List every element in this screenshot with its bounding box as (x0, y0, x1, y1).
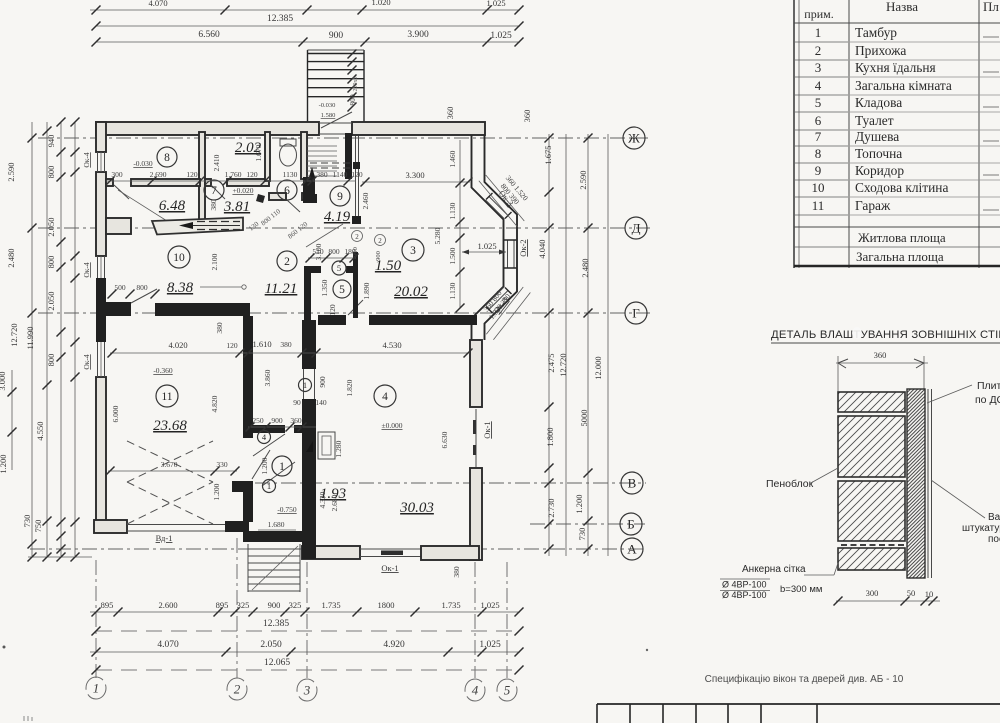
bottom dim row 3 (90, 640, 524, 657)
garage cross (127, 441, 213, 524)
room bubble 9 (330, 186, 350, 206)
entrance stairs top (308, 50, 365, 129)
interior wall wc south (269, 193, 286, 200)
wall pier left a (106, 218, 131, 234)
bottom dim row 12.065 (92, 658, 524, 675)
interior vertical dims (111, 94, 457, 511)
outer render lines (927, 389, 929, 578)
window Ок-1 right (475, 409, 477, 467)
room schedule table (794, 0, 1000, 268)
room bubble 7 (204, 180, 224, 200)
axis bubble А (621, 538, 643, 560)
facing hatched strip (907, 389, 925, 578)
leader render right (931, 480, 1000, 545)
room bubble 1 (299, 379, 312, 392)
dimension row top partial (90, 0, 524, 15)
leader Плити (927, 380, 1000, 406)
window Ок-4 at y256 (97, 256, 99, 278)
outer wall right lower hollow (470, 468, 482, 560)
axis bubble Г (625, 302, 647, 324)
axis bubble 4 (465, 679, 485, 701)
foam block 2 (838, 416, 905, 477)
tambour south wall (243, 531, 305, 542)
rotated callouts near corridor (247, 207, 309, 241)
rebar labels (720, 579, 822, 600)
door mark (2)900 b (375, 235, 386, 246)
left margin dim lines (8, 118, 80, 557)
door diag room8 (114, 185, 129, 199)
outer wall top right segment (352, 122, 485, 135)
dimension row 12.385 top (92, 14, 524, 31)
detail bottom dims 300 50 10 (834, 588, 941, 606)
leader Анкерна сітка (742, 563, 838, 575)
bay window Ок-3 upper (486, 197, 509, 220)
interior wall shower south (205, 179, 211, 186)
door diag garage/tambour (252, 450, 270, 479)
axis line D (38, 227, 650, 229)
dim row 4000/120 & 1610/380/4530 (108, 339, 473, 358)
left margin dim texts (0, 135, 56, 533)
room bubble 5 (332, 261, 346, 275)
room bubble 1 (263, 480, 276, 493)
room bubble 4 (258, 431, 271, 444)
leader from 4.19 (306, 224, 343, 247)
garage east wall (243, 316, 253, 438)
room bubble 8 (157, 147, 177, 167)
interior wall stair east (345, 133, 352, 179)
interior wall corridor south / garage north (155, 303, 250, 316)
axis line A (30, 548, 646, 550)
outer wall left segments with windows Ок-4 (96, 122, 106, 152)
left margin tick row y557 (28, 553, 93, 562)
interior wall room8 south (106, 179, 113, 186)
door diag corridor (131, 289, 157, 303)
room3 south wall (318, 315, 346, 325)
door diag tambour (253, 434, 295, 486)
stair flight arrow band (152, 218, 243, 235)
axis bubble Б (620, 513, 642, 535)
wc door jamb wedge (256, 194, 265, 203)
leader Пеноблок (766, 468, 838, 490)
door diag room3 (348, 300, 363, 315)
axis bubble Ж (623, 127, 645, 149)
tambour north wall (253, 425, 285, 433)
room bubble 1 (272, 456, 292, 476)
axis bubble 1 (86, 677, 106, 699)
door diag wc (287, 200, 300, 212)
dim row 250 900 360 (246, 416, 317, 432)
garage bottom wall (225, 521, 249, 532)
axis verticals 1-5 (95, 560, 97, 678)
wall pier left b (106, 302, 131, 316)
anchor mesh joint (841, 544, 905, 546)
interior dim row y176 (106, 170, 363, 186)
bottom wall left of window (302, 546, 360, 559)
axis bubble 3 (297, 679, 317, 701)
room bubble 3 (402, 239, 424, 261)
stray dot (3, 646, 6, 649)
door diag room10 long (118, 190, 186, 233)
interior wall shower/wc divider (265, 132, 270, 181)
axis bubble 5 (497, 679, 517, 701)
dimension row 6.560 900 3.900 1.025 (92, 30, 524, 47)
interior wall room8 east (199, 132, 205, 221)
bay dim stack lower (471, 275, 531, 340)
foam block 4 (838, 548, 905, 570)
pantry walls (304, 266, 321, 273)
top door jambs (319, 122, 352, 124)
right margin dim texts (537, 145, 603, 540)
axis line B (530, 523, 645, 525)
bottom dim row 12.385 (92, 619, 524, 636)
axis line V (255, 482, 646, 484)
room bubble 5 (333, 280, 351, 298)
outer wall right upper hollow (472, 135, 518, 340)
tiny marks bottom left (24, 716, 32, 721)
boiler flue (318, 432, 335, 459)
stairwell upper treads (307, 146, 355, 177)
axis bubble 2 (227, 678, 247, 700)
interior wall stair west (301, 132, 307, 179)
thin wall room9/room3 (355, 136, 357, 223)
bay dim stack upper (479, 162, 540, 227)
tambour east wall (302, 320, 316, 369)
room bubble 2 (277, 251, 297, 271)
bottom wall right of window (421, 546, 479, 560)
axis bubble В (621, 472, 643, 494)
door mark (2)900 a (352, 231, 363, 242)
window Ок-4 at y152 (97, 152, 99, 172)
outer wall right mid hollow (470, 340, 482, 407)
foam block 1 (838, 392, 905, 412)
foam block 3 (838, 481, 905, 541)
window Ок-4 at y342 (97, 342, 99, 377)
detail title (771, 327, 1000, 343)
toilet fixture (280, 139, 297, 166)
room bubble 6 (277, 180, 297, 200)
dim 1.025 with arrows (462, 241, 506, 255)
title block (597, 704, 1000, 723)
axis line Zh (38, 137, 648, 139)
garage gate Вд-1 lines (127, 524, 225, 526)
room bubble 4 (374, 385, 396, 407)
leader 8.38 (200, 286, 242, 288)
door diag room7 (211, 185, 225, 199)
dim row 510 800 180 (306, 247, 359, 263)
axis line G (38, 312, 650, 314)
room bubble 10 (168, 246, 190, 268)
window Ок-1 bottom (360, 548, 421, 550)
bay window Ок-2 (507, 240, 509, 268)
room bubble 11 (156, 385, 178, 407)
right margin dim lines (545, 134, 609, 557)
porch steps (248, 544, 300, 592)
outer wall top left segment (96, 122, 319, 135)
bay window Ок-3 lower (486, 287, 509, 310)
stairwell lower block (303, 177, 315, 203)
bottom dim row 1 (90, 600, 524, 617)
right room vertical dim line (459, 140, 461, 308)
axis bubble Д (625, 217, 647, 239)
detail dim 360 (836, 350, 928, 392)
